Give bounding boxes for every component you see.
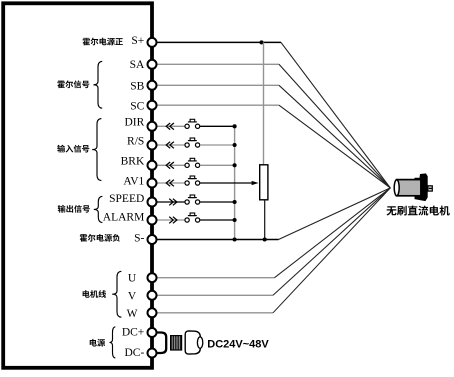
chevron arrow R/S [166,142,174,149]
svg-text:AV1: AV1 [123,176,144,188]
chevron arrow DIR [166,123,174,130]
label hall power - 霍尔电源负 [80,234,120,242]
power plug barrel [185,331,203,354]
wire S+ diagonal to motor [281,42,390,188]
junction ALARM on bus [233,218,237,222]
wire BRK right segment [200,164,235,166]
push-button switch BRK [185,158,200,167]
label input signals 输入信号 [57,145,89,153]
terminal SC [148,101,157,110]
push-button switch DIR [185,119,200,128]
power plug crimp spring [171,336,182,350]
label brushless DC motor 无刷直流电机 [387,206,450,216]
svg-text:BRK: BRK [121,155,145,167]
wire potentiometer bottom lead [264,200,266,240]
wire SB diagonal to motor [279,85,390,188]
label output signals 输出信号 [58,205,90,213]
wire SB horizontal [157,84,279,86]
wire SPEED right segment [200,201,235,203]
wire SA horizontal [157,63,279,65]
label motor wires 电机线 [83,290,106,298]
junction DIR on bus [233,124,237,128]
wire BRK left segment [157,164,185,166]
terminal W [148,308,157,317]
chevron arrow BRK [166,162,174,169]
wire W diagonal to motor [273,188,390,313]
terminal V [148,291,157,300]
svg-text:ALARM: ALARM [103,212,145,224]
svg-text:DC24V~48V: DC24V~48V [207,339,269,351]
svg-text:S+: S+ [131,35,144,47]
wire R/S left segment [157,144,185,146]
terminal DC+ [148,328,157,337]
wire S+ horizontal [157,41,281,43]
junction R/S on bus [233,143,237,147]
wire DIR left segment [157,125,185,127]
junction S+ to potentiometer [259,40,263,44]
svg-text:DC+: DC+ [122,327,144,339]
terminal S+ [148,38,157,47]
junction bus on S- [233,237,237,241]
terminal SB [148,81,157,90]
brace hall signal group [93,61,102,108]
junction SPEED on bus [233,200,237,204]
wire DC+ / DC- leads to power plug [156,333,166,354]
wire AV1 left segment [157,182,185,184]
push-button switch SPEED [185,195,200,204]
wire ALARM right segment [200,219,235,221]
terminal AV1 [148,179,157,188]
push-button switch R/S [185,138,200,147]
wire DIR right segment [200,125,235,127]
label hall power + 霍尔电源正 [83,38,123,46]
terminal DC- [148,349,157,358]
label power 电源 [90,339,105,347]
wire AV1 right segment [200,182,252,184]
terminal name labels [103,35,145,359]
svg-text:SPEED: SPEED [109,193,144,205]
wire V horizontal [157,294,273,296]
push-button switch ALARM [185,213,200,222]
potentiometer RP speed adjust [260,165,268,200]
terminal R/S [148,141,157,150]
wire SA diagonal to motor [279,64,390,188]
wire S- diagonal to motor [279,188,391,240]
terminal U [148,273,157,282]
wire SC horizontal [157,104,279,106]
brace input signal group [92,119,101,181]
svg-text:S-: S- [134,232,144,244]
svg-text:V: V [128,291,137,303]
chevron arrow ALARM [169,217,177,224]
wire U diagonal to motor [275,188,391,278]
terminal SPEED [148,198,157,207]
svg-text:DIR: DIR [124,116,144,128]
svg-text:SA: SA [130,59,145,71]
chevron arrow AV1 [166,180,174,187]
arrowhead AV1 wiper [252,181,259,185]
wire SPEED left segment [157,201,185,203]
brace motor wire group [112,271,121,317]
wire SC diagonal to motor [279,105,390,188]
svg-text:W: W [127,308,138,320]
motor M1 front end cap [394,180,399,196]
terminal DIR [148,122,157,131]
motor M1 body [397,180,421,196]
terminal S- [148,235,157,244]
wire W horizontal [157,312,273,314]
motor M1 flange [415,173,428,201]
svg-text:SB: SB [130,81,144,93]
wire common bus vertical [234,126,236,239]
terminal BRK [148,161,157,170]
svg-text:R/S: R/S [127,136,144,148]
svg-text:U: U [128,273,137,285]
wire potentiometer top lead [263,42,265,164]
driver box outline [3,3,152,368]
junction BRK on bus [233,163,237,167]
wire S- horizontal [157,239,279,241]
chevron arrow SPEED [169,199,177,206]
svg-text:SC: SC [130,101,144,113]
wire R/S right segment [200,144,235,146]
wire U horizontal [157,277,275,279]
svg-text:DC-: DC- [124,347,144,359]
brace power group [110,327,116,358]
label hall signals 霍尔信号 [57,80,89,88]
terminal SA [148,60,157,69]
brace output signal group [94,196,103,222]
wire V diagonal to motor [273,188,390,295]
wire ALARM left segment [157,219,185,221]
push-button switch AV1 [185,176,200,185]
motor M1 shaft [428,186,432,191]
terminal ALARM [148,216,157,225]
junction potentiometer lead on S- [263,237,267,241]
